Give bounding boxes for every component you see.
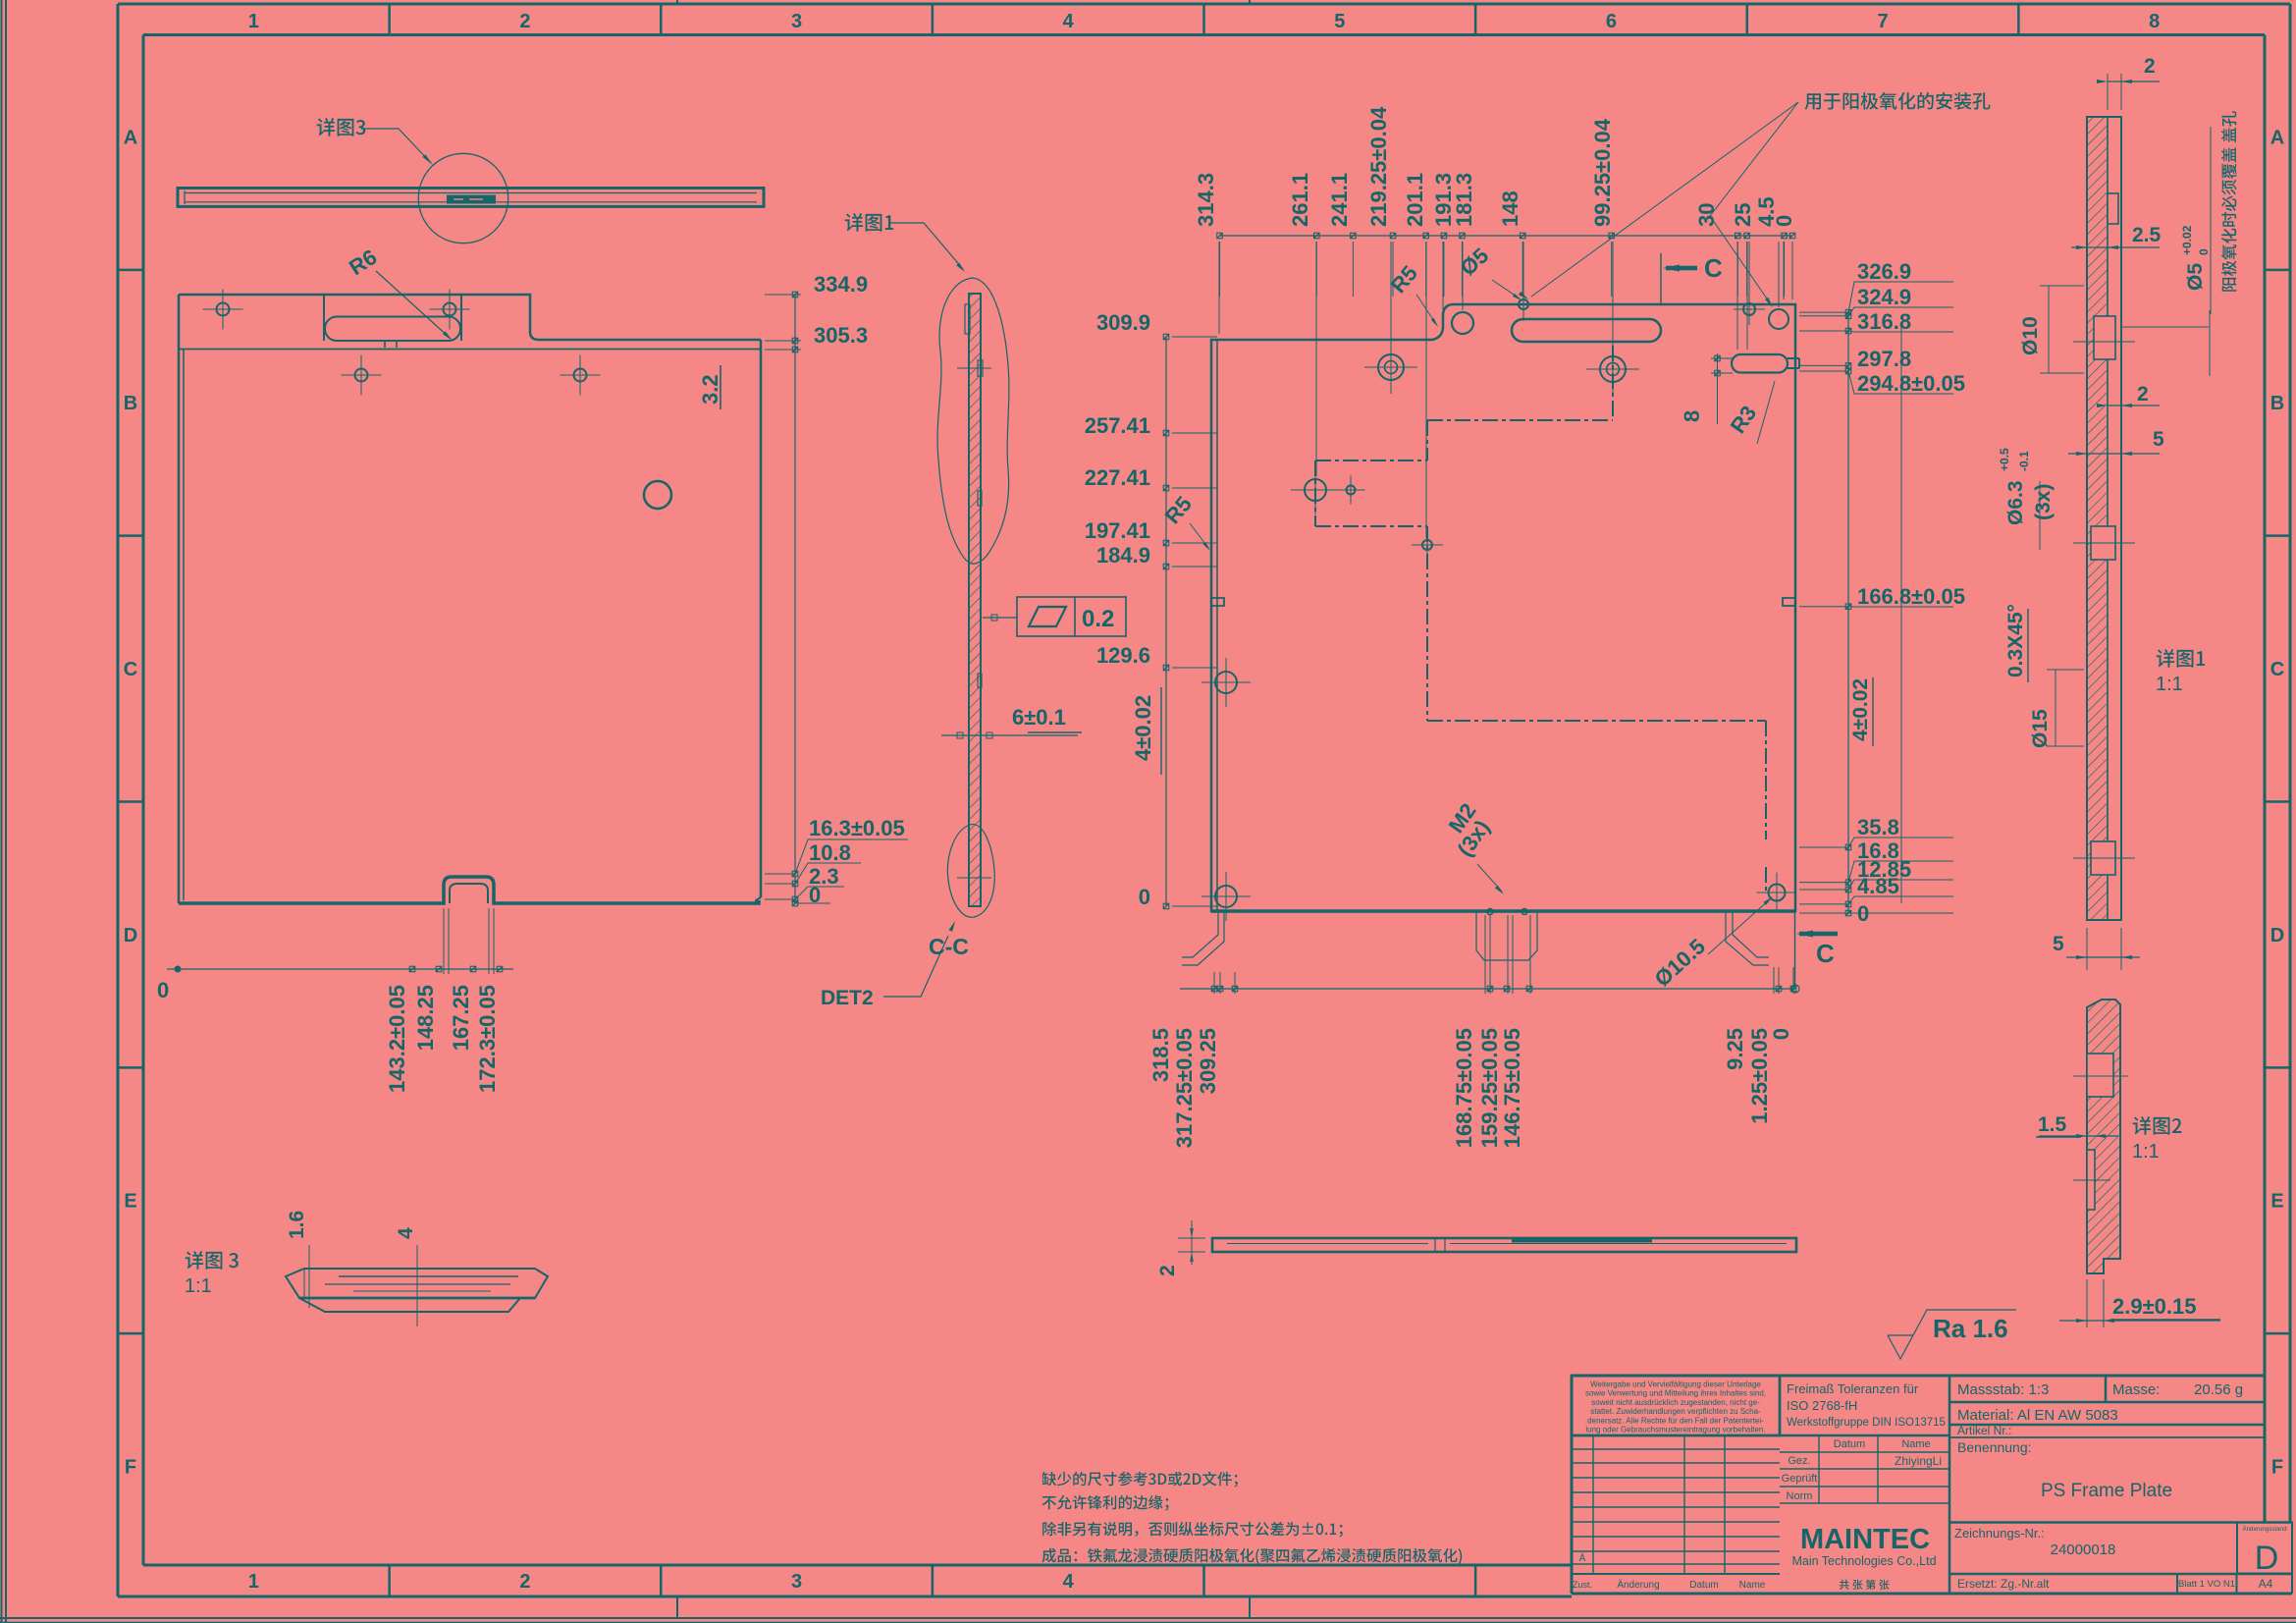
- svg-text:5: 5: [2053, 933, 2064, 955]
- svg-text:1: 1: [248, 1571, 259, 1593]
- svg-text:Zust.: Zust.: [1573, 1580, 1592, 1590]
- svg-text:1.25±0.05: 1.25±0.05: [1747, 1028, 1772, 1124]
- svg-text:25: 25: [1731, 203, 1755, 227]
- svg-text:B: B: [124, 393, 137, 414]
- svg-text:5: 5: [2153, 428, 2164, 451]
- svg-text:0: 0: [2197, 248, 2211, 255]
- svg-text:D: D: [2255, 1540, 2279, 1577]
- svg-text:F: F: [125, 1457, 136, 1479]
- svg-text:E: E: [124, 1191, 136, 1213]
- svg-text:+0.02: +0.02: [2180, 225, 2194, 255]
- svg-text:1:1: 1:1: [2156, 674, 2183, 695]
- svg-text:334.9: 334.9: [814, 272, 868, 297]
- svg-text:C: C: [124, 659, 137, 680]
- svg-text:C: C: [1816, 939, 1835, 968]
- svg-text:soweit nicht ausdrücklich zuge: soweit nicht ausdrücklich zugestanden, n…: [1591, 1398, 1760, 1407]
- svg-text:1: 1: [248, 11, 259, 32]
- svg-text:Norm: Norm: [1787, 1490, 1813, 1502]
- svg-text:Datum: Datum: [1689, 1580, 1718, 1591]
- svg-text:6: 6: [1606, 11, 1617, 32]
- svg-text:ISO 2768-fH: ISO 2768-fH: [1787, 1398, 1857, 1413]
- svg-text:146.75±0.05: 146.75±0.05: [1500, 1028, 1524, 1148]
- svg-text:F: F: [2271, 1457, 2283, 1479]
- svg-text:166.8±0.05: 166.8±0.05: [1857, 584, 1965, 609]
- svg-text:129.6: 129.6: [1096, 643, 1150, 668]
- svg-text:8: 8: [2149, 11, 2160, 32]
- svg-text:261.1: 261.1: [1288, 173, 1312, 227]
- svg-text:C-C: C-C: [929, 934, 969, 959]
- svg-text:20.56 g: 20.56 g: [2194, 1381, 2243, 1398]
- svg-text:9.25: 9.25: [1723, 1028, 1747, 1070]
- svg-text:Änderung: Änderung: [1617, 1579, 1659, 1591]
- svg-text:184.9: 184.9: [1096, 543, 1150, 568]
- svg-text:Ä: Ä: [1579, 1552, 1586, 1564]
- svg-text:sowie Verwertung und Mitteilun: sowie Verwertung und Mitteilung ihres In…: [1585, 1389, 1766, 1398]
- svg-text:8: 8: [1680, 410, 1704, 422]
- svg-text:1:1: 1:1: [185, 1275, 212, 1297]
- svg-text:148.25: 148.25: [413, 985, 438, 1051]
- svg-text:159.25±0.05: 159.25±0.05: [1477, 1028, 1502, 1148]
- svg-text:Zeichnungs-Nr.:: Zeichnungs-Nr.:: [1954, 1526, 2045, 1541]
- svg-text:314.3: 314.3: [1194, 173, 1218, 227]
- svg-text:167.25: 167.25: [449, 985, 473, 1051]
- svg-text:B: B: [2270, 393, 2284, 414]
- svg-text:6±0.1: 6±0.1: [1012, 705, 1066, 730]
- svg-text:4±0.02: 4±0.02: [1849, 678, 1872, 741]
- svg-text:309.9: 309.9: [1096, 310, 1150, 335]
- svg-text:0: 0: [1769, 1028, 1793, 1040]
- svg-text:4: 4: [395, 1227, 417, 1239]
- svg-text:stattet. Zuwiderhandlungen ver: stattet. Zuwiderhandlungen verpflichten …: [1590, 1407, 1761, 1416]
- svg-text:Werkstoffgruppe DIN ISO13715: Werkstoffgruppe DIN ISO13715: [1787, 1417, 1946, 1429]
- svg-text:0.2: 0.2: [1082, 606, 1114, 632]
- svg-text:143.2±0.05: 143.2±0.05: [385, 985, 409, 1093]
- svg-text:D: D: [2270, 925, 2284, 947]
- svg-text:Material: Al EN AW 5083: Material: Al EN AW 5083: [1957, 1407, 2118, 1424]
- svg-text:7: 7: [1878, 11, 1889, 32]
- svg-text:2.5: 2.5: [2132, 224, 2162, 246]
- svg-text:Datum: Datum: [1834, 1438, 1865, 1450]
- svg-text:2: 2: [519, 1571, 530, 1593]
- svg-text:197.41: 197.41: [1085, 518, 1150, 543]
- svg-text:181.3: 181.3: [1452, 173, 1476, 227]
- svg-text:16.3±0.05: 16.3±0.05: [809, 816, 905, 840]
- svg-text:Ersetzt: Zg.-Nr.alt: Ersetzt: Zg.-Nr.alt: [1957, 1577, 2050, 1591]
- svg-text:1.5: 1.5: [2038, 1113, 2067, 1136]
- svg-text:Gez.: Gez.: [1788, 1455, 1810, 1467]
- svg-text:denersatz. Alle Rechte für den: denersatz. Alle Rechte für den Fall der …: [1587, 1416, 1764, 1425]
- svg-text:Ø5: Ø5: [2184, 263, 2207, 291]
- svg-text:257.41: 257.41: [1085, 413, 1150, 438]
- svg-text:Artikel Nr.:: Artikel Nr.:: [1957, 1424, 2011, 1437]
- svg-text:5: 5: [1334, 11, 1345, 32]
- svg-text:ZhiyingLi: ZhiyingLi: [1895, 1454, 1942, 1468]
- svg-text:318.5: 318.5: [1148, 1028, 1173, 1082]
- svg-text:Masse:: Masse:: [2112, 1381, 2160, 1398]
- svg-text:A: A: [2270, 127, 2284, 148]
- svg-text:Main Technologies Co.,Ltd: Main Technologies Co.,Ltd: [1791, 1554, 1936, 1568]
- svg-text:D: D: [124, 925, 137, 947]
- svg-text:lung oder Gebrauchsmustereintr: lung oder Gebrauchsmustereintragung vorb…: [1585, 1426, 1765, 1434]
- svg-text:Änderungsstand: Änderungsstand: [2242, 1526, 2287, 1533]
- svg-text:99.25±0.04: 99.25±0.04: [1590, 118, 1615, 227]
- svg-text:Ø6.3: Ø6.3: [2004, 480, 2027, 525]
- svg-text:3: 3: [791, 1571, 802, 1593]
- svg-text:MAINTEC: MAINTEC: [1800, 1524, 1930, 1555]
- svg-text:3: 3: [791, 11, 802, 32]
- svg-text:4.85: 4.85: [1857, 874, 1899, 898]
- svg-text:201.1: 201.1: [1403, 173, 1427, 227]
- svg-text:35.8: 35.8: [1857, 815, 1899, 839]
- svg-text:241.1: 241.1: [1327, 173, 1352, 227]
- svg-text:2: 2: [519, 11, 530, 32]
- svg-text:317.25±0.05: 317.25±0.05: [1172, 1028, 1197, 1148]
- svg-text:C: C: [1704, 253, 1723, 283]
- svg-text:172.3±0.05: 172.3±0.05: [475, 985, 500, 1093]
- svg-text:Geprüft: Geprüft: [1782, 1473, 1818, 1485]
- svg-text:Name: Name: [1739, 1580, 1766, 1591]
- svg-text:Blatt 1 VO N1: Blatt 1 VO N1: [2178, 1579, 2235, 1590]
- svg-text:Freimaß Toleranzen für: Freimaß Toleranzen für: [1787, 1381, 1919, 1396]
- svg-text:24000018: 24000018: [2051, 1542, 2116, 1558]
- svg-text:2.9±0.15: 2.9±0.15: [2112, 1294, 2196, 1319]
- svg-text:Benennung:: Benennung:: [1957, 1439, 2032, 1455]
- svg-text:4: 4: [1063, 1571, 1075, 1593]
- svg-text:297.8: 297.8: [1857, 347, 1911, 371]
- svg-text:316.8: 316.8: [1857, 309, 1911, 334]
- svg-text:C: C: [2270, 659, 2284, 680]
- svg-text:1.6: 1.6: [286, 1211, 308, 1239]
- svg-text:A: A: [124, 127, 137, 148]
- svg-text:227.41: 227.41: [1085, 465, 1150, 490]
- svg-text:0: 0: [1772, 215, 1796, 227]
- svg-text:A4: A4: [2259, 1577, 2273, 1591]
- svg-text:(3x): (3x): [2032, 484, 2055, 520]
- svg-text:4±0.02: 4±0.02: [1131, 695, 1155, 761]
- svg-text:Ra 1.6: Ra 1.6: [1933, 1314, 2008, 1343]
- svg-text:219.25±0.04: 219.25±0.04: [1366, 106, 1391, 227]
- svg-text:309.25: 309.25: [1196, 1028, 1220, 1094]
- svg-text:Massstab: 1:3: Massstab: 1:3: [1957, 1381, 2049, 1398]
- svg-text:168.75±0.05: 168.75±0.05: [1452, 1028, 1476, 1148]
- svg-text:0: 0: [157, 978, 169, 1002]
- svg-text:148: 148: [1498, 190, 1522, 227]
- svg-text:DET2: DET2: [821, 987, 874, 1009]
- svg-text:324.9: 324.9: [1857, 285, 1911, 309]
- svg-text:-0.1: -0.1: [2017, 451, 2031, 471]
- svg-text:Weitergabe und Vervielfältigun: Weitergabe und Vervielfältigung dieser U…: [1590, 1380, 1761, 1389]
- svg-text:10.8: 10.8: [809, 840, 851, 865]
- svg-text:E: E: [2270, 1191, 2283, 1213]
- svg-text:3.2: 3.2: [698, 374, 722, 405]
- svg-text:2: 2: [1156, 1265, 1179, 1276]
- svg-text:+0.5: +0.5: [1998, 448, 2011, 471]
- svg-text:Ø10: Ø10: [2019, 316, 2042, 355]
- svg-text:326.9: 326.9: [1857, 259, 1911, 284]
- svg-text:2: 2: [2144, 55, 2156, 78]
- svg-text:1:1: 1:1: [2132, 1141, 2160, 1163]
- svg-text:305.3: 305.3: [814, 323, 868, 348]
- svg-text:2: 2: [2137, 383, 2149, 406]
- svg-text:4: 4: [1063, 11, 1075, 32]
- svg-text:PS Frame Plate: PS Frame Plate: [2041, 1481, 2172, 1501]
- svg-text:Name: Name: [1901, 1438, 1930, 1450]
- svg-text:0.3X45°: 0.3X45°: [2004, 604, 2027, 677]
- svg-text:0: 0: [1139, 885, 1150, 909]
- svg-text:Ø15: Ø15: [2029, 709, 2052, 748]
- svg-text:294.8±0.05: 294.8±0.05: [1857, 371, 1965, 396]
